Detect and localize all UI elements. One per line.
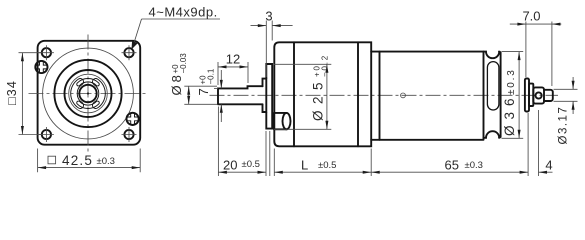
dim dia36 text — [502, 68, 517, 136]
svg-text:±0.3: ±0.3 — [506, 68, 517, 95]
dim sq42.5 extension lines — [38, 149, 141, 173]
mounting hole BR — [122, 127, 137, 142]
svg-text:4: 4 — [545, 157, 552, 172]
carrier cutout left — [71, 78, 84, 108]
dim sq42.5 square symbol — [48, 156, 56, 164]
dim 12 line — [218, 66, 248, 68]
dim sq34 arrows — [21, 53, 24, 135]
pin boss cap edge — [283, 113, 287, 129]
dim 3 line — [251, 25, 293, 27]
center dot — [87, 92, 89, 94]
svg-text:3: 3 — [265, 9, 272, 24]
svg-text:12: 12 — [226, 52, 240, 67]
dim 20 extension lines — [218, 107, 269, 177]
gearbox rear seam line — [357, 42, 359, 146]
inner boss circle (bold) — [65, 70, 112, 117]
dim 7.0 arrows — [517, 23, 560, 26]
svg-text:7.0: 7.0 — [522, 9, 540, 24]
rear bracket bar — [525, 79, 529, 112]
svg-text:−0.1: −0.1 — [207, 68, 216, 84]
label 4~M4x9dp leader — [133, 19, 220, 46]
svg-text:7: 7 — [196, 88, 211, 95]
motor outline circle (behind flange, thin) — [43, 48, 134, 139]
gearbox front pin boss — [274, 113, 291, 129]
dim 20 line — [218, 171, 266, 173]
svg-text:−0.2: −0.2 — [321, 54, 330, 77]
dim L line — [274, 171, 371, 173]
dim 4 extension line — [538, 110, 540, 176]
gearbox boss circle (bold) — [54, 60, 121, 127]
dim 65 arrows — [371, 171, 528, 174]
phillips screw TL — [35, 61, 48, 74]
dim dia3.17 text — [558, 106, 570, 145]
svg-text:Ø25: Ø25 — [311, 76, 326, 121]
shaft shoulder disc — [263, 79, 267, 112]
svg-text:±0.5: ±0.5 — [242, 159, 260, 170]
dim 7 extension line — [214, 87, 218, 89]
pilot circle (thin) — [69, 74, 108, 113]
dim dia8 line — [188, 86, 190, 104]
endbell vent slot — [487, 62, 499, 110]
dim dia8 extension lines — [184, 86, 217, 104]
dim dia36 line — [518, 52, 520, 139]
svg-text:20: 20 — [223, 157, 237, 172]
mounting hole TL — [39, 45, 54, 60]
dim 3 arrows — [258, 24, 281, 27]
dim dia25 extension lines — [274, 64, 332, 129]
mounting hole TR — [122, 45, 137, 60]
dim dia36 extension lines — [502, 52, 524, 139]
carrier cutout right — [92, 78, 105, 108]
motor can front seam — [379, 52, 381, 140]
svg-text:±0.3: ±0.3 — [97, 156, 115, 167]
motor can outline — [371, 52, 483, 140]
svg-text:Ø8: Ø8 — [169, 72, 184, 95]
rear housing circle — [536, 92, 542, 98]
dim 65 line — [371, 171, 528, 173]
svg-text:□34: □34 — [5, 80, 19, 105]
dim L extension lines — [274, 149, 371, 177]
centerline vertical (front view) — [87, 35, 89, 153]
gearbox case outline — [274, 42, 371, 146]
shaft circle (bold) — [79, 85, 96, 102]
dim 7.0 extension lines — [526, 22, 552, 87]
dim 12 arrows — [218, 65, 248, 68]
svg-text:Ø3.17: Ø3.17 — [558, 106, 570, 145]
dim dia3.17 extension lines — [554, 89, 578, 101]
dim dia3.17 arrows — [572, 81, 575, 110]
phillips screw BR — [126, 112, 139, 125]
motor can weld dot — [401, 93, 406, 98]
svg-text:L: L — [301, 157, 308, 172]
svg-text:±0.3: ±0.3 — [465, 160, 483, 171]
dim dia8 text — [169, 53, 188, 96]
dim L arrows — [274, 171, 371, 174]
front shaft outline — [218, 86, 263, 104]
dim 3 extension lines — [266, 21, 272, 78]
dim 4 line — [539, 171, 553, 173]
svg-text:−0.03: −0.03 — [179, 53, 188, 74]
dim sq42.5 arrows — [38, 166, 141, 169]
gearbox front seam line — [293, 42, 295, 146]
dim 7 line — [220, 70, 222, 122]
pilot boss disc (3mm) — [266, 64, 272, 129]
flange square outline — [38, 41, 141, 145]
dim dia8 arrows — [187, 86, 190, 104]
mounting hole BL — [39, 127, 54, 142]
svg-text:42.5: 42.5 — [62, 153, 93, 168]
dim sq34 line — [21, 53, 23, 135]
dim 4 arrows — [539, 171, 548, 174]
svg-text:±0.5: ±0.5 — [318, 160, 336, 171]
dim sq42.5 line — [38, 167, 141, 169]
svg-text:65: 65 — [445, 157, 459, 172]
centerline (side view) — [210, 94, 559, 96]
rear knurl housing — [533, 87, 544, 103]
carrier cutout top — [77, 78, 100, 85]
dim dia3.17 line — [572, 77, 574, 114]
dim sq34 extension lines — [19, 53, 43, 135]
dim dia25 line — [326, 64, 328, 129]
dim 65 extension line — [527, 113, 529, 176]
dim 7 text — [196, 68, 216, 95]
centerline horizontal (front view) — [29, 93, 148, 95]
rear mid block — [529, 84, 533, 106]
svg-text:Ø36: Ø36 — [502, 92, 517, 136]
endbell outline — [484, 52, 501, 138]
svg-text:4~M4x9dp.: 4~M4x9dp. — [149, 5, 218, 20]
dim dia25 arrows — [325, 64, 328, 129]
rear shaft stub — [544, 90, 553, 101]
dim 12 extension lines — [218, 62, 248, 85]
dim dia25 text — [311, 54, 330, 121]
dim 7.0 line — [510, 23, 562, 25]
dim dia36 arrows — [518, 52, 521, 139]
carrier cutout bottom — [77, 101, 100, 108]
dim 7 arrows — [220, 80, 223, 113]
dim 20 arrows — [218, 171, 266, 174]
label 4~M4x9dp arrow — [132, 41, 138, 50]
